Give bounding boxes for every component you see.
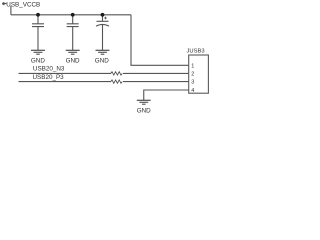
svg-text:JUSB3: JUSB3 (187, 49, 205, 55)
svg-text:2: 2 (191, 72, 194, 78)
svg-text:USB_VCCB: USB_VCCB (6, 1, 40, 8)
svg-text:1: 1 (191, 63, 194, 69)
svg-text:4: 4 (191, 88, 194, 94)
svg-text:GND: GND (137, 108, 151, 115)
svg-text:GND: GND (95, 58, 109, 65)
svg-text:USB20_P3: USB20_P3 (33, 74, 65, 81)
svg-text:3: 3 (191, 80, 194, 86)
svg-text:USB20_N3: USB20_N3 (33, 66, 65, 73)
svg-text:GND: GND (31, 58, 45, 65)
svg-text:GND: GND (66, 58, 80, 65)
